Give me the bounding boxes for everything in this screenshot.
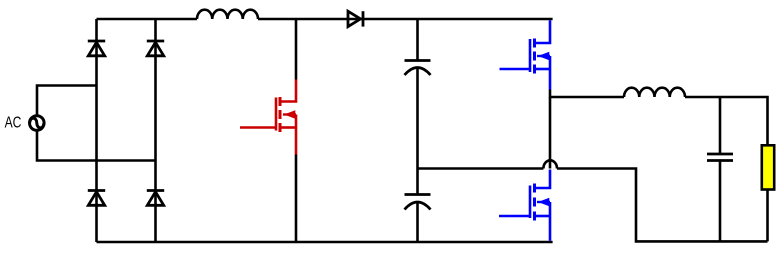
svg-text:AC: AC <box>5 114 22 131</box>
